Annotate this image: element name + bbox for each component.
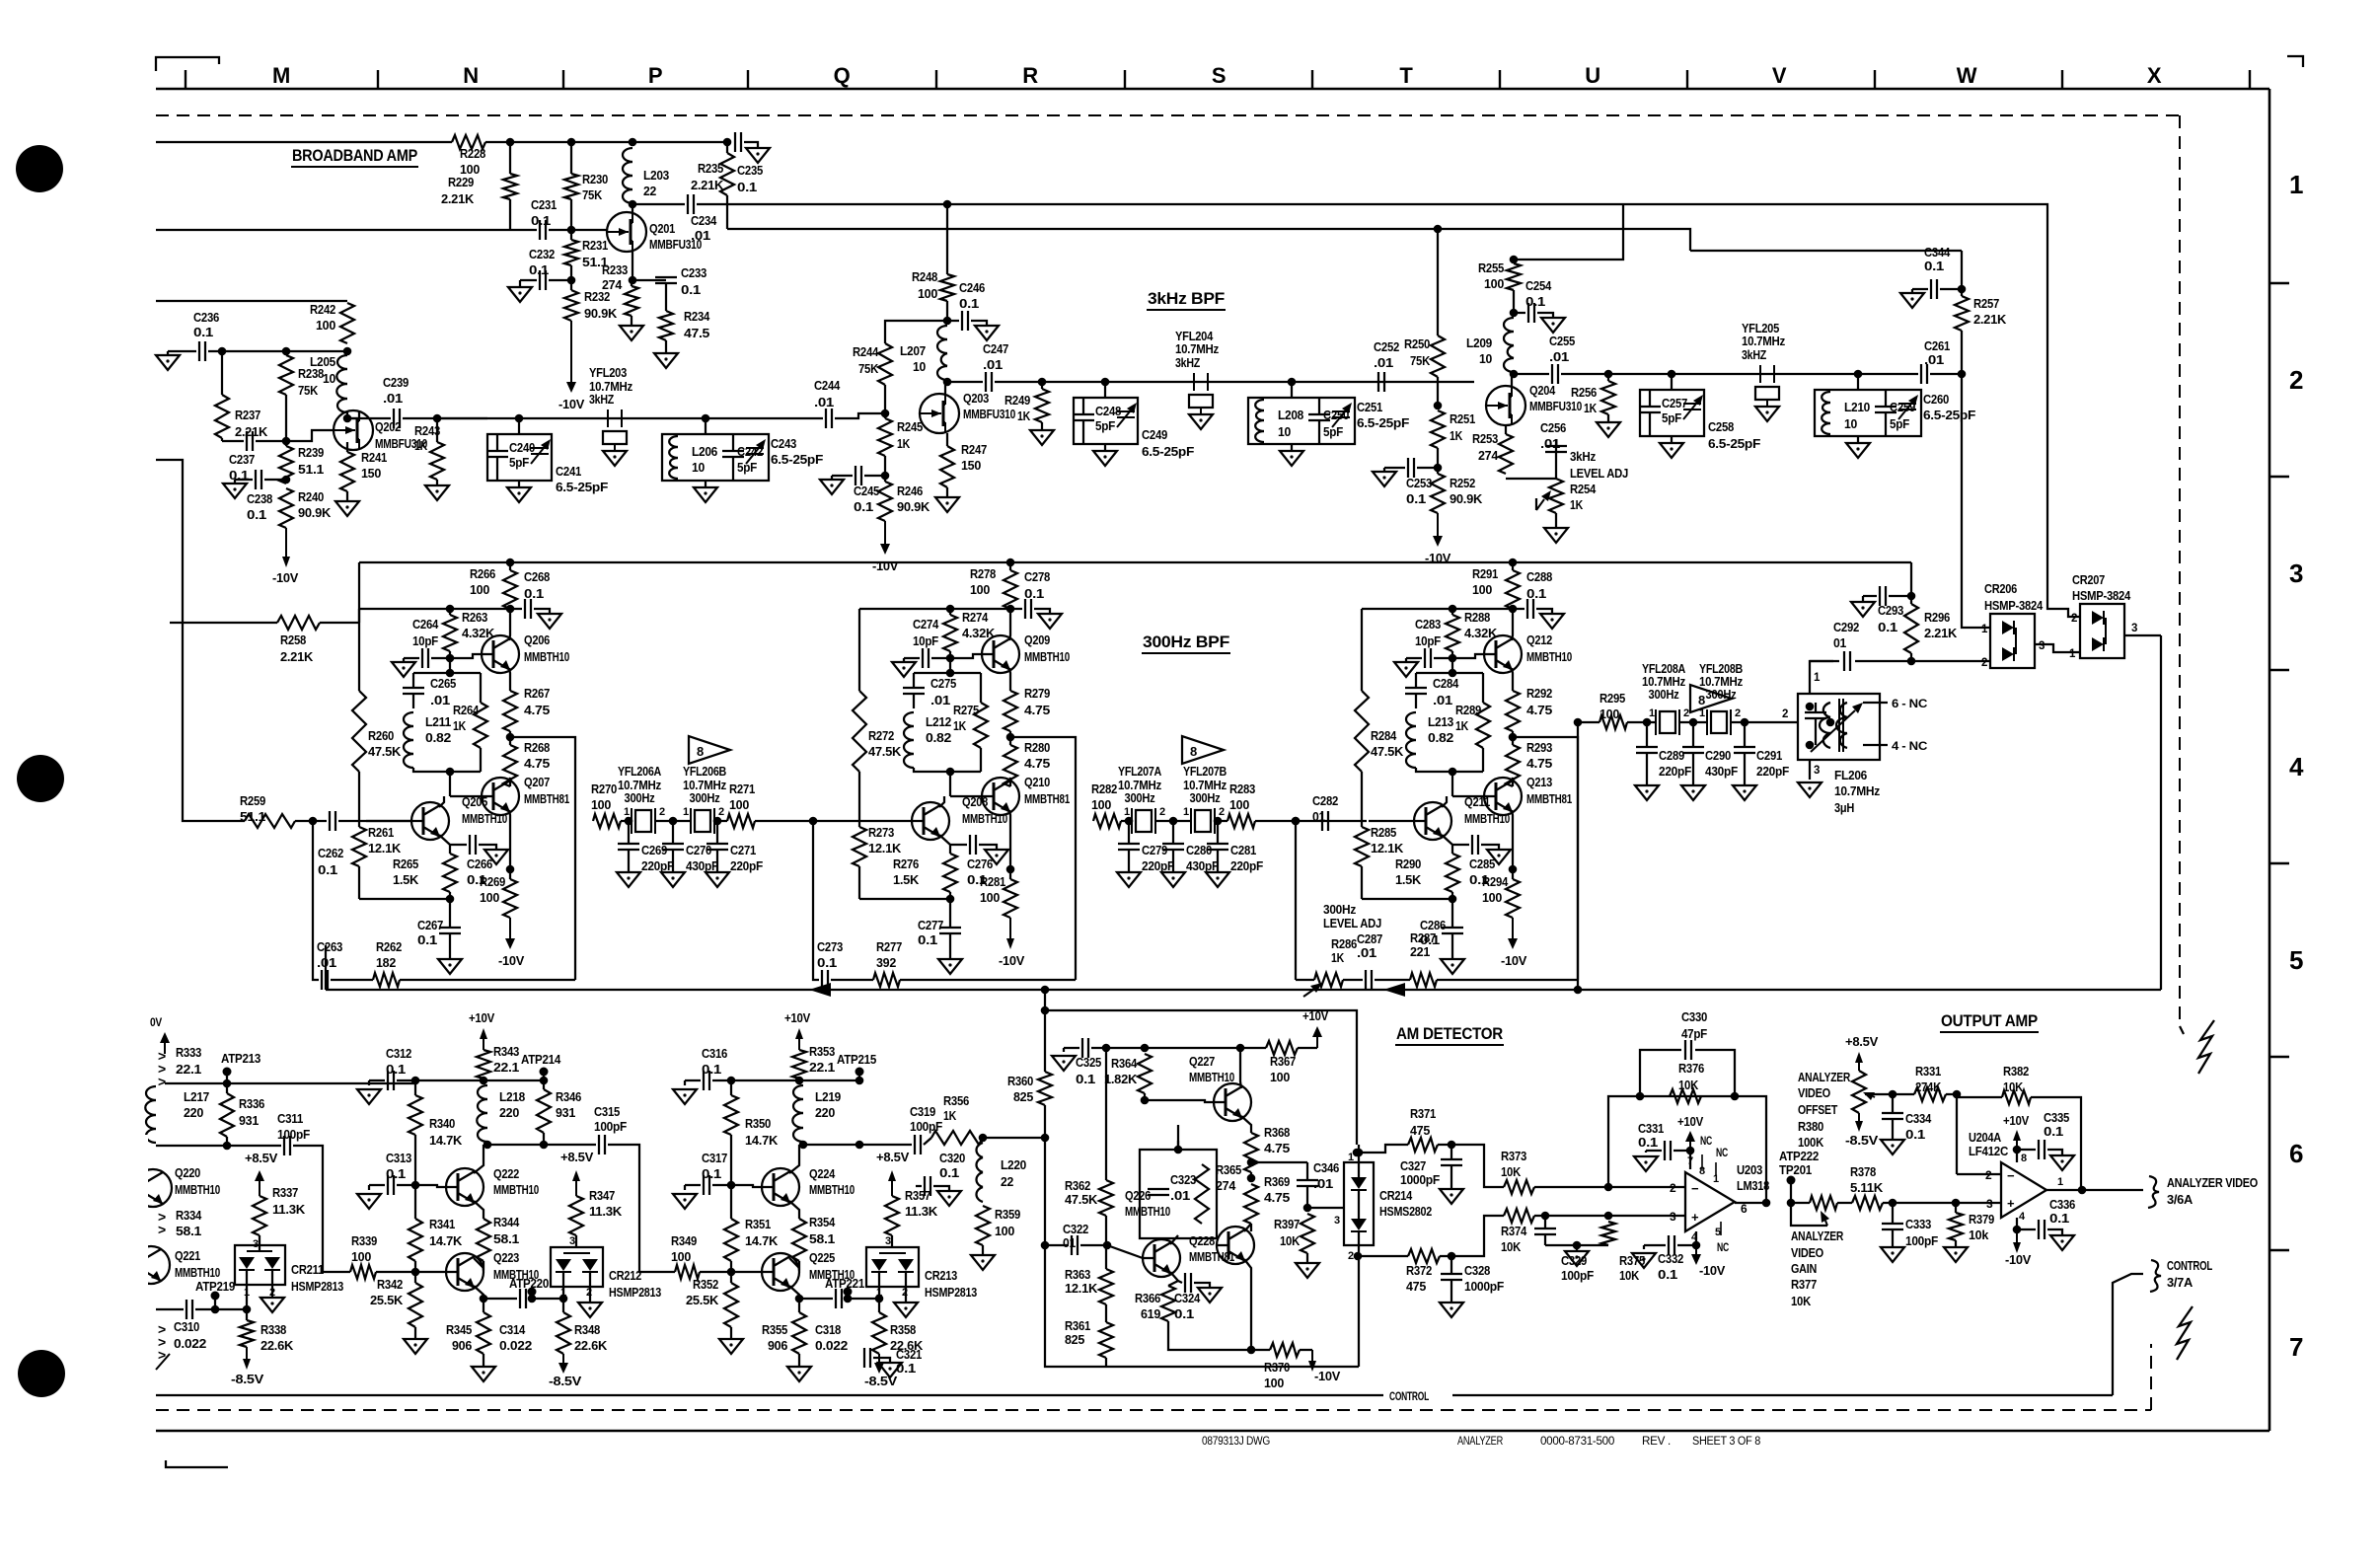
svg-text:100: 100: [729, 797, 749, 812]
svg-text:7: 7: [2289, 1332, 2303, 1362]
svg-text:CONTROL: CONTROL: [1389, 1391, 1429, 1403]
svg-text:SHEET 3 OF 8: SHEET 3 OF 8: [1692, 1436, 1760, 1448]
resistor R246: [878, 456, 930, 521]
svg-text:3: 3: [569, 1235, 575, 1247]
wire tank1 tap: [1101, 378, 1110, 398]
resistor R271: [727, 781, 755, 828]
transistor Q227: [1189, 1054, 1251, 1121]
svg-text:0.1: 0.1: [529, 262, 549, 277]
pin numbers YFL208: [1649, 707, 1741, 719]
capacitor C233: [632, 265, 707, 306]
svg-text:HSMP-3824: HSMP-3824: [2072, 588, 2131, 603]
wire FL206 pin6: [1863, 697, 1928, 710]
svg-text:1: 1: [1124, 806, 1130, 818]
svg-text:C281: C281: [1230, 843, 1256, 857]
svg-text:C331: C331: [1638, 1121, 1664, 1136]
svg-text:475: 475: [1406, 1279, 1426, 1294]
svg-text:R340: R340: [429, 1116, 455, 1131]
capacitor C265 tank: [403, 673, 456, 708]
svg-text:3kHZ: 3kHZ: [1175, 356, 1201, 370]
svg-text:.01: .01: [1924, 352, 1944, 367]
svg-text:BROADBAND AMP: BROADBAND AMP: [292, 146, 417, 165]
svg-text:R262: R262: [376, 939, 402, 954]
wire source: [629, 252, 637, 284]
svg-text:R337: R337: [272, 1185, 298, 1200]
svg-text:100pF: 100pF: [594, 1119, 627, 1134]
wire tank bottom: [413, 768, 481, 796]
resistor R293: [1506, 737, 1552, 786]
capacitor C252: [1374, 339, 1399, 392]
power -10V U204A: [2005, 1229, 2031, 1267]
svg-text:906: 906: [768, 1338, 787, 1353]
svg-text:R380: R380: [1798, 1119, 1823, 1134]
tank C323 R365: [1140, 1150, 1241, 1238]
svg-text:274K: 274K: [1915, 1079, 1942, 1094]
pin 5 U203: [1715, 1222, 1729, 1254]
svg-text:R347: R347: [589, 1188, 615, 1203]
svg-text:220pF: 220pF: [1659, 764, 1691, 779]
svg-text:220pF: 220pF: [1230, 858, 1263, 873]
svg-text:CR214: CR214: [1379, 1188, 1413, 1203]
wire to R360: [983, 1134, 1049, 1143]
svg-text:C236: C236: [193, 310, 219, 325]
transistor Q223: [446, 1250, 539, 1291]
transistor Q213: [1484, 775, 1572, 815]
wire Q213 base: [1452, 795, 1484, 797]
power +10V arrow: [784, 1010, 810, 1050]
svg-text:V: V: [1772, 63, 1787, 88]
svg-text:R361: R361: [1065, 1318, 1090, 1333]
opamp U203 plus: [1670, 1210, 1699, 1225]
svg-text:4 - NC: 4 - NC: [1892, 739, 1928, 753]
capacitor C267: [417, 899, 462, 974]
capacitor C279: [1117, 821, 1174, 887]
resistor R277: [831, 939, 1076, 987]
resistor R373: [1501, 1149, 1534, 1194]
svg-text:R283: R283: [1229, 781, 1255, 796]
resistor R397: [1274, 1214, 1314, 1253]
title BROADBAND AMP: [291, 146, 418, 167]
svg-text:0.1: 0.1: [1526, 586, 1546, 601]
svg-text:C264: C264: [412, 617, 439, 632]
svg-text:C253: C253: [1406, 476, 1432, 490]
svg-text:R345: R345: [446, 1322, 472, 1337]
wire Q210 base: [950, 795, 982, 797]
wire tank2 tap: [1288, 378, 1297, 398]
svg-text:10: 10: [1479, 351, 1492, 366]
svg-text:6.5-25pF: 6.5-25pF: [1357, 415, 1409, 430]
svg-text:R343: R343: [493, 1044, 519, 1059]
svg-text:10pF: 10pF: [913, 633, 938, 648]
svg-text:X: X: [2147, 63, 2162, 88]
capacitor C310: [174, 1300, 206, 1351]
resistor R294: [1482, 869, 1520, 918]
svg-text:0.1: 0.1: [524, 586, 544, 601]
wire Q207 collector: [509, 778, 510, 786]
ground CR213 pin2: [894, 1302, 918, 1317]
svg-text:1: 1: [560, 1287, 566, 1299]
wire Q211 base: [1369, 820, 1414, 822]
capacitor C318: [799, 1289, 879, 1353]
svg-text:3: 3: [1670, 1210, 1676, 1224]
svg-text:0.1: 0.1: [247, 507, 266, 522]
dashed border right stub: [2180, 1026, 2184, 1034]
testpoint ATP220: [509, 1276, 549, 1302]
svg-text:3: 3: [2289, 558, 2303, 588]
svg-text:R287: R287: [1410, 930, 1436, 945]
wire L2 top rail: [415, 1077, 487, 1085]
svg-text:100: 100: [1472, 582, 1492, 597]
wire Q226 base: [1107, 1245, 1143, 1258]
svg-text:+8.5V: +8.5V: [876, 1150, 909, 1164]
wire into Q203: [835, 413, 885, 418]
capacitor C280: [1161, 821, 1219, 887]
svg-text:R292: R292: [1526, 686, 1552, 701]
registration dot 1: [16, 145, 63, 192]
svg-text:0.1: 0.1: [2044, 1124, 2063, 1139]
svg-text:100: 100: [1484, 276, 1504, 291]
wire C310 chain: [156, 1308, 184, 1310]
svg-text:>: >: [158, 1074, 166, 1089]
testpoint ATP222 TP201: [1779, 1149, 1819, 1207]
svg-text:HSMP2813: HSMP2813: [925, 1285, 977, 1300]
svg-text:R371: R371: [1410, 1106, 1436, 1121]
node C328: [1440, 1252, 1455, 1261]
capacitor C253: [1373, 458, 1442, 506]
resistor R280: [1004, 737, 1050, 786]
opamp U203 out: [1735, 1199, 1770, 1216]
svg-text:R230: R230: [582, 172, 608, 186]
wire rail2: [859, 608, 1010, 610]
resistor R292: [1506, 686, 1552, 731]
svg-text:1K: 1K: [1455, 718, 1469, 733]
crystal YFL203: [589, 366, 632, 466]
svg-text:14.7K: 14.7K: [745, 1233, 779, 1248]
svg-text:Q204: Q204: [1529, 383, 1556, 398]
svg-text:5.11K: 5.11K: [1850, 1180, 1884, 1195]
wire Q211 collector: [1442, 796, 1447, 807]
testpoint ATP221: [825, 1276, 864, 1302]
label CR207: [2072, 572, 2131, 603]
power -10V arrow R252: [1425, 513, 1450, 565]
svg-text:906: 906: [452, 1338, 472, 1353]
pin 8 U204A: [2017, 1150, 2027, 1164]
resistor R261: [352, 772, 402, 899]
svg-text:C285: C285: [1469, 856, 1495, 871]
svg-text:1.5K: 1.5K: [1395, 872, 1422, 887]
svg-text:NC: NC: [1716, 1148, 1728, 1159]
resistor R340: [409, 1080, 463, 1185]
svg-text:YFL206B: YFL206B: [683, 765, 726, 779]
svg-text:R339: R339: [351, 1233, 377, 1248]
svg-text:1: 1: [2057, 1176, 2063, 1188]
svg-text:22: 22: [1001, 1174, 1013, 1189]
svg-text:3μH: 3μH: [1834, 800, 1854, 815]
capacitor C287: [1343, 931, 1382, 990]
flag 8 symbol 1: [689, 736, 730, 764]
svg-text:.01: .01: [1540, 436, 1560, 451]
resistor R378: [1837, 1164, 1884, 1210]
svg-text:-10V: -10V: [999, 953, 1024, 968]
svg-text:VIDEO: VIDEO: [1791, 1245, 1823, 1260]
svg-text:6.5-25pF: 6.5-25pF: [771, 452, 823, 467]
svg-text:3: 3: [885, 1235, 891, 1247]
ground CR212 pin2: [578, 1302, 602, 1317]
wire Q227 emitter: [1241, 1116, 1251, 1133]
resistor R269: [480, 869, 517, 918]
dashed border bottom: [156, 1409, 2151, 1411]
resistor R363: [1065, 1245, 1113, 1304]
svg-text:-10V: -10V: [498, 953, 524, 968]
svg-text:10: 10: [323, 371, 335, 386]
wire detector top loop: [1041, 1006, 1357, 1145]
resistor R283: [1227, 781, 1255, 828]
svg-text:R272: R272: [868, 728, 894, 743]
svg-text:10K: 10K: [1678, 1078, 1699, 1092]
wire R295 to YFL208A: [1627, 718, 1656, 727]
power -10V arrow R294: [1501, 918, 1526, 968]
svg-text:R264: R264: [453, 703, 480, 717]
svg-text:R374: R374: [1501, 1224, 1527, 1238]
svg-text:R244: R244: [853, 344, 879, 359]
wire to CR212: [569, 1235, 576, 1247]
svg-text:C243: C243: [771, 436, 796, 451]
node Q202 drain: [343, 410, 359, 422]
svg-text:C320: C320: [939, 1151, 965, 1165]
svg-text:430pF: 430pF: [1705, 764, 1738, 779]
power +8.5V L1: [245, 1151, 277, 1196]
svg-text:L219: L219: [815, 1089, 841, 1104]
svg-text:C332: C332: [1658, 1251, 1683, 1266]
pin labels CR206: [1981, 624, 2045, 669]
node stage out tap: [506, 731, 515, 741]
wire rail2: [1362, 608, 1513, 610]
inductor L220: [976, 1143, 1026, 1202]
svg-text:22: 22: [643, 184, 656, 198]
svg-text:.01: .01: [691, 228, 710, 243]
svg-text:1: 1: [683, 806, 689, 818]
svg-text:R352: R352: [693, 1277, 718, 1292]
crystal YFL205: [1742, 322, 1785, 421]
wire Q208 emitter: [939, 835, 950, 854]
wire Q222 base: [415, 1185, 446, 1187]
svg-text:MMBTH81: MMBTH81: [524, 791, 569, 806]
svg-text:90.9K: 90.9K: [298, 505, 332, 520]
svg-text:22.1: 22.1: [809, 1060, 835, 1075]
wire Q213 collector: [1512, 778, 1513, 786]
svg-text:2.21K: 2.21K: [1973, 312, 2007, 327]
svg-text:-10V: -10V: [2005, 1252, 2031, 1267]
title AM DETECTOR: [1395, 1024, 1504, 1045]
node L220 junction: [979, 1134, 988, 1143]
svg-text:MMBTH10: MMBTH10: [962, 811, 1007, 826]
svg-text:0.1: 0.1: [386, 1166, 406, 1181]
svg-text:10K: 10K: [1501, 1164, 1522, 1179]
wire Q205 base: [366, 820, 411, 822]
svg-text:R333: R333: [176, 1045, 201, 1060]
svg-text:8: 8: [1190, 744, 1197, 759]
svg-text:C278: C278: [1024, 569, 1050, 584]
wire Q205 emitter: [439, 835, 450, 854]
resistor R250: [1404, 335, 1445, 377]
diode pair CR214: [1344, 1145, 1374, 1367]
testpoint ATP213: [221, 1051, 260, 1083]
ground R352: [719, 1327, 743, 1354]
corner mark top-left: [156, 57, 219, 71]
resistor R272: [853, 609, 902, 772]
svg-text:2: 2: [659, 806, 665, 818]
svg-text:51.1: 51.1: [298, 462, 324, 477]
wire ATP219 node: [195, 1285, 251, 1313]
svg-text:4: 4: [2019, 1211, 2026, 1223]
svg-text:4.75: 4.75: [524, 703, 550, 717]
svg-text:100pF: 100pF: [1905, 1233, 1938, 1248]
svg-text:R276: R276: [893, 856, 919, 871]
svg-text:430pF: 430pF: [686, 858, 718, 873]
svg-text:2: 2: [1683, 707, 1689, 719]
ground R355: [787, 1354, 811, 1381]
svg-text:300Hz: 300Hz: [690, 791, 720, 805]
capacitor C322: [1045, 1222, 1107, 1255]
wire C262 to Q205: [338, 820, 411, 822]
resistor R260: [352, 609, 402, 772]
svg-text:C327: C327: [1400, 1158, 1426, 1173]
resistor R288: [1446, 605, 1498, 658]
svg-text:0000-8731-500: 0000-8731-500: [1540, 1436, 1614, 1448]
svg-text:R255: R255: [1478, 260, 1504, 275]
svg-text:R258: R258: [280, 633, 306, 647]
svg-text:392: 392: [876, 955, 896, 970]
svg-text:P: P: [648, 63, 662, 88]
svg-text:1: 1: [1183, 806, 1189, 818]
svg-text:430pF: 430pF: [1186, 858, 1219, 873]
title 300Hz BPF: [1142, 633, 1230, 653]
svg-text:4.75: 4.75: [1264, 1141, 1290, 1155]
wire Q206 base: [450, 654, 482, 658]
svg-text:R257: R257: [1973, 296, 1999, 311]
node C327: [1438, 1141, 1455, 1150]
capacitor C273: [809, 817, 843, 990]
inductor L209: [1466, 318, 1514, 372]
svg-text:75K: 75K: [858, 361, 879, 376]
svg-text:300Hz: 300Hz: [625, 791, 655, 805]
column letters M-X: [272, 63, 2162, 88]
svg-text:R263: R263: [462, 610, 487, 625]
svg-text:R353: R353: [809, 1044, 835, 1059]
svg-text:ATP214: ATP214: [521, 1052, 561, 1067]
svg-text:1: 1: [2289, 170, 2303, 199]
opamp U203 minus: [1670, 1181, 1699, 1196]
wire R337 to CR211: [253, 1235, 260, 1251]
svg-text:10pF: 10pF: [412, 633, 438, 648]
diode pair CR207: [2071, 604, 2124, 658]
svg-text:R275: R275: [953, 703, 979, 717]
svg-text:Q208: Q208: [962, 794, 988, 809]
svg-text:220: 220: [184, 1105, 203, 1120]
inductor L211: [404, 712, 451, 768]
svg-text:C333: C333: [1905, 1217, 1931, 1231]
wire tank2 tap: [1854, 370, 1863, 390]
svg-text:R265: R265: [393, 856, 418, 871]
wire between crystals: [1155, 817, 1227, 826]
capacitor C319: [910, 1104, 942, 1154]
capacitor C281: [1206, 821, 1263, 887]
wire C236 down: [221, 351, 223, 395]
capacitor C288: [1513, 569, 1564, 629]
pot R377 analyzer video gain: [1791, 1196, 1844, 1308]
svg-text:MMBTH10: MMBTH10: [462, 811, 507, 826]
wire Q223 emitter: [474, 1286, 487, 1302]
svg-text:C277: C277: [918, 918, 943, 932]
wire FL206 pin4: [1863, 739, 1928, 753]
diode pair CR212: [551, 1247, 603, 1302]
resistor R348: [557, 1295, 608, 1354]
svg-text:R293: R293: [1526, 740, 1552, 755]
svg-text:90.9K: 90.9K: [897, 499, 930, 514]
svg-text:C317: C317: [702, 1151, 727, 1165]
resistor R251: [1431, 410, 1475, 448]
wire collector node: [483, 1141, 596, 1150]
wire between YFL208: [1679, 708, 1798, 726]
svg-text:220pF: 220pF: [641, 858, 674, 873]
crystal YFL208A: [1642, 662, 1685, 735]
label CR206: [1984, 581, 2044, 613]
svg-text:0.1: 0.1: [1076, 1072, 1095, 1086]
label U203: [1737, 1162, 1769, 1193]
svg-text:47.5K: 47.5K: [368, 744, 402, 759]
wire into YFL206A: [621, 817, 632, 826]
svg-text:100: 100: [1264, 1376, 1284, 1390]
svg-text:C290: C290: [1705, 748, 1731, 763]
capacitor C261: [1921, 338, 1950, 384]
node R331 R382: [1946, 1090, 1961, 1099]
wire R257 down to CR206: [1962, 374, 1990, 628]
svg-text:R: R: [1022, 63, 1038, 88]
wire Q227 collector: [1240, 1048, 1241, 1088]
wire Q209 base: [950, 654, 982, 658]
wire Q209 emitter: [1009, 668, 1010, 691]
resistor R278: [970, 558, 1017, 609]
svg-text:R368: R368: [1264, 1125, 1290, 1140]
inductor L219: [792, 1085, 841, 1142]
svg-text:C274: C274: [913, 617, 939, 632]
resistor R249: [1004, 382, 1054, 445]
resistor R232: [564, 280, 618, 321]
diode pair CR213: [866, 1247, 919, 1302]
resistor R382: [1957, 1064, 2081, 1190]
capacitor C240 tank: [486, 434, 552, 481]
svg-text:1K: 1K: [1584, 401, 1598, 415]
svg-text:C322: C322: [1063, 1222, 1088, 1236]
wire chain A3: [437, 417, 823, 419]
svg-text:619: 619: [1141, 1306, 1160, 1321]
ground CR211 pin2: [260, 1285, 284, 1312]
resistor R289: [1455, 673, 1490, 772]
wire rail2: [359, 608, 510, 610]
svg-text:1000pF: 1000pF: [1400, 1172, 1440, 1187]
svg-text:0.1: 0.1: [918, 932, 937, 947]
wire CR207 out: [2124, 623, 2161, 635]
svg-text:22.1: 22.1: [176, 1062, 201, 1077]
resistor R343: [477, 1044, 519, 1079]
svg-text:HSMS2802: HSMS2802: [1379, 1204, 1432, 1219]
svg-text:3/6A: 3/6A: [2167, 1192, 2194, 1207]
svg-text:0.1: 0.1: [386, 1062, 406, 1077]
svg-text:VIDEO: VIDEO: [1798, 1085, 1830, 1100]
svg-text:C275: C275: [930, 676, 956, 691]
svg-text:L208: L208: [1278, 408, 1303, 422]
svg-text:14.7K: 14.7K: [745, 1133, 779, 1148]
